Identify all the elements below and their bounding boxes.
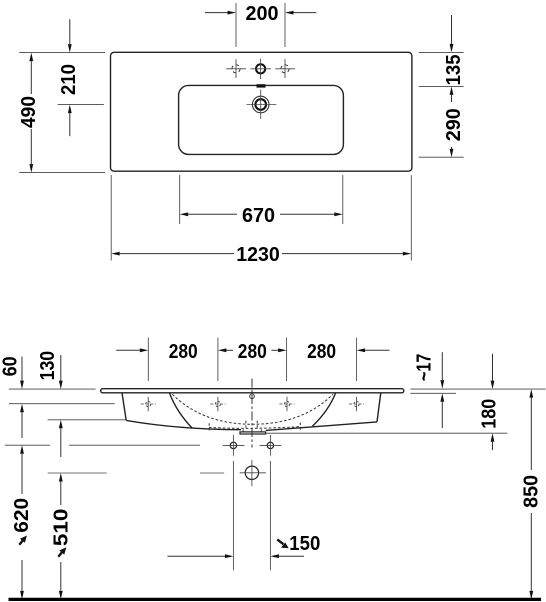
dim 280 right: [307, 340, 389, 363]
ext line body bottom left: [48, 419, 127, 421]
dim 1230: [111, 243, 411, 266]
dim 510 leader arrow: [58, 547, 66, 557]
dim 670: [180, 204, 343, 227]
floor line: [9, 598, 542, 601]
svg-text:180: 180: [477, 399, 500, 429]
elevation bowl bottom hidden lines: [209, 421, 300, 431]
svg-text:1230: 1230: [236, 243, 280, 266]
dim 200: [205, 2, 316, 25]
dim 135/290 extension lines right: [419, 51, 464, 53]
elevation underside left: [126, 420, 241, 429]
elevation wall fixing cross 2: [210, 397, 225, 412]
elevation bowl silhouette right: [312, 393, 335, 426]
dim 60: [0, 356, 24, 438]
elevation body left edge: [122, 393, 126, 421]
elevation drain outlet: [240, 460, 266, 486]
plan drain: [246, 90, 276, 119]
dim 490/210 top extension line: [19, 52, 105, 54]
svg-text:670: 670: [242, 204, 275, 227]
ext line 620 level: [5, 444, 50, 446]
elevation lower fixing hole left: [223, 435, 245, 456]
svg-text:280: 280: [307, 340, 336, 363]
dim 280 extension lines: [147, 338, 149, 382]
dim 290: [442, 86, 465, 157]
svg-text:290: 290: [442, 108, 465, 141]
dim 150: [167, 532, 320, 558]
svg-text:850: 850: [519, 475, 542, 508]
ext line rim top right: [410, 388, 545, 390]
elevation lower fixing hole right: [260, 435, 282, 456]
ext line rim bottom right: [410, 392, 456, 394]
dim 490: [17, 53, 40, 173]
elevation underside right: [266, 422, 377, 431]
svg-text:60: 60: [0, 356, 22, 376]
svg-text:130: 130: [36, 351, 59, 381]
elevation bowl silhouette left: [169, 393, 192, 429]
ext line 510 level: [48, 472, 107, 474]
plan view inner basin bowl: [179, 85, 344, 154]
dim 620: [10, 445, 33, 599]
dim 510: [50, 473, 73, 599]
elevation trap box: [240, 429, 266, 434]
dim ~17: [413, 352, 445, 428]
dim 850: [519, 389, 542, 599]
plan overflow slot: [257, 84, 266, 87]
plan left faucet mark: [226, 59, 246, 78]
dim 135: [442, 15, 465, 85]
dim 130: [36, 351, 63, 457]
dim 620 leader arrow: [19, 536, 27, 545]
dim 670 extension lines: [179, 175, 181, 224]
plan center faucet hole: [250, 59, 271, 79]
dim 280 left: [116, 340, 198, 363]
dim 490 bottom extension line: [19, 172, 105, 174]
svg-text:200: 200: [246, 2, 279, 25]
elevation rim slab: [101, 389, 404, 393]
plan view outer rim rectangle: [111, 52, 412, 171]
svg-text:510: 510: [50, 509, 73, 547]
dim 180: [477, 354, 500, 450]
dim 200 extension lines: [235, 3, 237, 47]
elevation wall fixing cross 1: [141, 397, 156, 412]
dim 280 middle: [218, 340, 287, 363]
elevation wall fixing cross 4: [349, 397, 364, 412]
elevation body right edge: [377, 393, 381, 422]
svg-text:~17: ~17: [413, 354, 436, 382]
elevation centerline: [251, 379, 253, 448]
dim 1230 extension lines: [110, 175, 112, 261]
plan right faucet mark: [275, 59, 295, 78]
svg-text:280: 280: [169, 340, 198, 363]
ext line 180 level: [266, 432, 508, 434]
dim 210 lower extension line: [58, 104, 104, 106]
svg-text:620: 620: [10, 498, 33, 533]
elevation wall fixing cross 3: [279, 397, 294, 412]
svg-text:280: 280: [238, 340, 267, 363]
dim 150 leader arrow: [277, 540, 288, 549]
dim 150 extension lines: [232, 461, 234, 570]
dim 210: [57, 19, 80, 136]
ext line rim top left: [9, 388, 96, 390]
elevation bowl hidden curve: [172, 394, 333, 424]
ext line holes level left: [9, 403, 115, 405]
svg-text:210: 210: [57, 64, 80, 95]
svg-text:150: 150: [289, 532, 320, 555]
svg-text:135: 135: [442, 54, 465, 85]
svg-text:490: 490: [17, 96, 40, 128]
elevation overflow circle: [250, 394, 255, 399]
